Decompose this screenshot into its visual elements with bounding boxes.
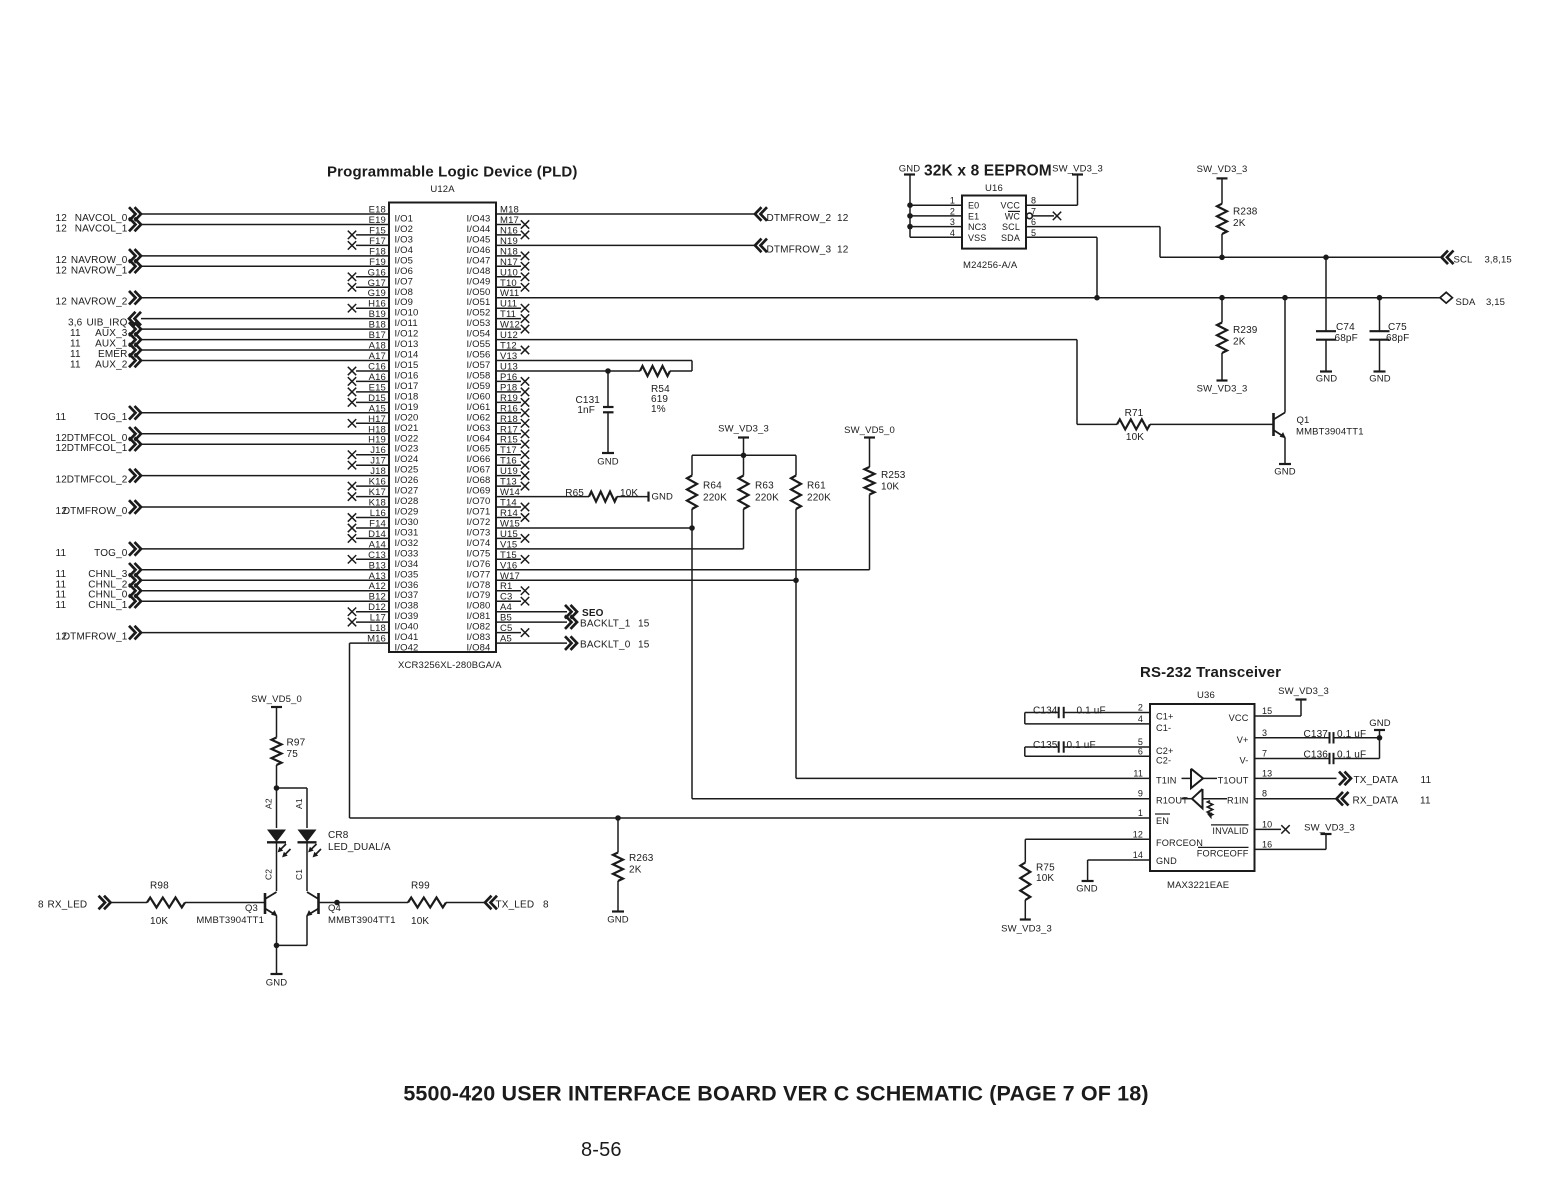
svg-text:A13: A13: [369, 571, 386, 582]
svg-text:GND: GND: [1274, 467, 1296, 478]
svg-text:NAVCOL_0: NAVCOL_0: [75, 213, 128, 224]
svg-text:6: 6: [1031, 217, 1036, 227]
pin I/O44 ball M17 (no connect): [467, 215, 530, 235]
svg-text:M18: M18: [500, 205, 519, 216]
pin I/O79 ball R1 (no connect): [467, 581, 530, 601]
svg-text:I/O31: I/O31: [395, 528, 419, 539]
svg-text:CR8: CR8: [328, 830, 349, 841]
svg-text:CHNL_3: CHNL_3: [88, 569, 128, 580]
svg-text:I/O67: I/O67: [467, 465, 491, 476]
svg-text:R97: R97: [287, 738, 306, 749]
svg-text:0.1 uF: 0.1 uF: [1067, 740, 1096, 751]
wire R71 to Q1 base: [1150, 423, 1274, 425]
pin I/O45 ball N16 (no connect): [467, 225, 530, 245]
svg-text:F15: F15: [369, 225, 386, 236]
svg-text:15: 15: [1262, 706, 1272, 716]
svg-text:12: 12: [56, 433, 68, 444]
pin 1 EN number: [1138, 808, 1143, 818]
svg-text:MMBT3904TT1: MMBT3904TT1: [196, 915, 264, 926]
capacitor C75 68pF: [1370, 295, 1410, 371]
ground GND below C75: [1369, 372, 1391, 385]
wire U16 pin 3: [907, 217, 962, 229]
pin I/O67 ball T16 (no connect): [467, 456, 530, 476]
ground GND above C137: [1369, 718, 1391, 738]
node DTMFROW_3 pin I/O46 ball N19: [467, 236, 849, 256]
svg-text:GND: GND: [1369, 374, 1391, 385]
pin I/O4 ball F17 (no connect): [348, 236, 413, 256]
svg-text:C13: C13: [368, 550, 386, 561]
svg-text:A14: A14: [369, 539, 386, 550]
svg-text:R1OUT: R1OUT: [1156, 796, 1188, 806]
svg-text:J17: J17: [370, 456, 386, 467]
svg-text:TX_DATA: TX_DATA: [1354, 775, 1399, 786]
svg-text:K17: K17: [369, 487, 386, 498]
svg-text:E0: E0: [968, 201, 979, 211]
svg-text:I/O13: I/O13: [395, 339, 419, 350]
svg-text:MAX3221EAE: MAX3221EAE: [1167, 880, 1229, 891]
svg-text:U11: U11: [500, 299, 517, 310]
sheet title: [403, 1082, 1148, 1106]
svg-text:T13: T13: [500, 477, 517, 488]
ground GND at U16 left: [899, 164, 921, 175]
svg-text:I/O82: I/O82: [467, 622, 491, 633]
svg-text:I/O21: I/O21: [395, 423, 419, 434]
pin I/O27 ball K16 (no connect): [348, 477, 419, 497]
svg-text:K18: K18: [369, 498, 386, 509]
pin I/O39 ball D12 (no connect): [348, 602, 419, 622]
svg-text:R75: R75: [1036, 863, 1055, 874]
svg-text:68pF: 68pF: [1386, 333, 1409, 344]
svg-text:8: 8: [543, 900, 549, 911]
svg-text:12: 12: [1133, 829, 1143, 839]
svg-text:10K: 10K: [881, 482, 899, 493]
svg-text:VSS: VSS: [968, 233, 986, 243]
svg-text:I/O70: I/O70: [467, 496, 491, 507]
node DTMFCOL_2 pin I/O26 ball J18: [56, 466, 419, 486]
svg-text:I/O23: I/O23: [395, 444, 419, 455]
svg-text:I/O1: I/O1: [395, 214, 414, 225]
svg-text:W12: W12: [500, 320, 520, 331]
svg-text:Programmable Logic Device (PLD: Programmable Logic Device (PLD): [327, 164, 578, 181]
svg-text:H18: H18: [368, 424, 386, 435]
svg-text:G19: G19: [368, 288, 386, 299]
svg-text:10K: 10K: [1126, 432, 1144, 443]
svg-text:V-: V-: [1240, 756, 1249, 766]
wire I/O57 ball V13 to net R54loop: [467, 351, 693, 371]
pin I/O7 ball G16 (no connect): [348, 267, 413, 287]
capacitor C134 0.1uF: [1025, 703, 1150, 724]
svg-text:I/O30: I/O30: [395, 517, 419, 528]
svg-text:K16: K16: [369, 477, 386, 488]
svg-text:I/O12: I/O12: [395, 329, 419, 340]
svg-text:P16: P16: [500, 372, 517, 383]
pin I/O60 ball P18 (no connect): [467, 382, 530, 402]
pin I/O72 ball R14 (no connect): [467, 508, 530, 528]
svg-text:B12: B12: [369, 592, 386, 603]
svg-text:CHNL_0: CHNL_0: [88, 590, 128, 601]
svg-text:I/O18: I/O18: [395, 391, 419, 402]
svg-text:R263: R263: [629, 853, 654, 864]
pin I/O56 ball T12 (no connect): [467, 341, 530, 361]
svg-text:5500-420 USER INTERFACE BOARD: 5500-420 USER INTERFACE BOARD VER C SCHE…: [403, 1082, 1148, 1106]
svg-text:11: 11: [1420, 796, 1431, 807]
pin I/O19 ball D15 (no connect): [348, 393, 419, 413]
svg-text:GND: GND: [1369, 718, 1391, 729]
capacitor C135 0.1uF: [1025, 737, 1150, 756]
svg-text:B18: B18: [369, 320, 386, 331]
svg-text:AUX_3: AUX_3: [95, 328, 128, 339]
capacitor C137 0.1uF: [1255, 728, 1383, 744]
svg-text:10K: 10K: [620, 488, 638, 499]
svg-text:C1: C1: [294, 869, 304, 880]
node BACKLT_1 pin I/O82 ball B5: [467, 613, 650, 633]
svg-text:P18: P18: [500, 382, 517, 393]
svg-text:MMBT3904TT1: MMBT3904TT1: [1296, 427, 1364, 438]
svg-text:7: 7: [1031, 206, 1036, 216]
pin I/O71 ball T14 (no connect): [467, 498, 530, 518]
svg-text:I/O35: I/O35: [395, 569, 419, 580]
power SW_VD3_3 above 220K resistors: [718, 424, 769, 459]
CR8 designator LED_DUAL/A: [328, 830, 391, 853]
svg-text:I/O22: I/O22: [395, 433, 419, 444]
svg-text:11: 11: [70, 339, 81, 350]
svg-text:I/O9: I/O9: [395, 297, 414, 308]
pin I/O69 ball T13 (no connect): [467, 477, 530, 497]
svg-text:DTMFROW_3: DTMFROW_3: [767, 244, 832, 255]
svg-text:AUX_2: AUX_2: [95, 360, 128, 371]
svg-text:3,6: 3,6: [68, 318, 83, 329]
svg-text:68pF: 68pF: [1335, 333, 1358, 344]
svg-text:TOG_1: TOG_1: [94, 412, 128, 423]
pin I/O66 ball T17 (no connect): [467, 445, 530, 465]
svg-text:V15: V15: [500, 539, 517, 550]
svg-text:R253: R253: [881, 470, 906, 481]
svg-text:I/O26: I/O26: [395, 475, 419, 486]
pin I/O10 ball H16 (no connect): [348, 299, 419, 319]
svg-text:R238: R238: [1233, 207, 1258, 218]
svg-text:L18: L18: [370, 623, 386, 634]
svg-text:SW_VD3_3: SW_VD3_3: [1001, 924, 1052, 935]
svg-text:15: 15: [638, 639, 650, 650]
svg-text:220K: 220K: [755, 493, 779, 504]
svg-text:2: 2: [1138, 703, 1143, 713]
wire I/O75 ball V15 to net R63: [467, 539, 744, 559]
ground GND below C74: [1316, 372, 1338, 385]
svg-text:E15: E15: [369, 382, 386, 393]
svg-text:I/O64: I/O64: [467, 433, 491, 444]
svg-text:DTMFROW_2: DTMFROW_2: [767, 213, 832, 224]
svg-text:I/O44: I/O44: [467, 224, 491, 235]
svg-text:GND: GND: [597, 457, 619, 468]
svg-text:C2-: C2-: [1156, 755, 1171, 765]
page number 8-56: [581, 1139, 622, 1161]
svg-text:A1: A1: [294, 798, 304, 809]
svg-text:I/O77: I/O77: [467, 569, 491, 580]
node RX_DATA: [1255, 789, 1431, 807]
svg-text:T12: T12: [500, 341, 517, 352]
svg-text:U36: U36: [1197, 690, 1215, 701]
svg-text:N16: N16: [500, 225, 518, 236]
svg-text:I/O84: I/O84: [467, 643, 491, 654]
svg-text:SDA: SDA: [1456, 297, 1476, 308]
svg-text:2: 2: [950, 206, 955, 216]
svg-text:A2: A2: [264, 798, 274, 809]
pin I/O16 ball C16 (no connect): [348, 362, 419, 382]
node NAVCOL_0 pin I/O1 ball E18: [56, 205, 414, 225]
wire U36 FORCEON to R75: [1025, 829, 1150, 862]
pin I/O31 ball F14 (no connect): [348, 519, 419, 539]
node BACKLT_0 pin I/O84 ball A5: [467, 634, 650, 654]
pin I/O76 ball T15 (no connect): [467, 550, 530, 570]
PLD section title: [327, 164, 578, 181]
node TX_LED: [319, 900, 409, 906]
svg-text:SW_VD3_3: SW_VD3_3: [1197, 164, 1248, 175]
svg-text:U19: U19: [500, 466, 518, 477]
U12A part number XCR3256XL-280BGA/A: [398, 660, 502, 671]
buffer T1 triangle inside U36: [1182, 769, 1218, 788]
node CHNL_2 pin I/O36 ball A13: [56, 571, 419, 591]
svg-text:V+: V+: [1237, 735, 1249, 745]
svg-text:12: 12: [56, 297, 68, 308]
wire I/O55 ball U12 to net R71: [467, 330, 1078, 350]
svg-text:R19: R19: [500, 393, 518, 404]
svg-text:U16: U16: [985, 183, 1003, 194]
svg-text:C1-: C1-: [1156, 723, 1171, 733]
wire I/O58 ball U13 to net R54: [467, 362, 693, 382]
svg-text:I/O54: I/O54: [467, 329, 491, 340]
resistor R71 10K: [1117, 408, 1150, 443]
svg-text:R99: R99: [411, 881, 430, 892]
EEPROM section title: [924, 163, 1052, 180]
LED CR8 left diode: [267, 830, 291, 892]
svg-text:12: 12: [56, 224, 68, 235]
svg-text:C134: C134: [1033, 706, 1058, 717]
svg-text:I/O59: I/O59: [467, 381, 491, 392]
svg-text:3: 3: [1262, 728, 1267, 738]
svg-text:T14: T14: [500, 498, 517, 509]
node UIB_IRQ pin I/O11 ball B19: [68, 309, 418, 329]
svg-text:11: 11: [56, 579, 67, 590]
pin C1 label: [294, 869, 304, 880]
wire I/O55 riser to R71: [1077, 340, 1117, 425]
wire R64 node to U36 R1OUT: [692, 528, 1150, 799]
svg-text:I/O45: I/O45: [467, 234, 491, 245]
resistor R64 220K: [687, 455, 727, 531]
svg-text:I/O81: I/O81: [467, 611, 491, 622]
ground GND at U36 pin 14: [1076, 881, 1098, 895]
svg-text:I/O79: I/O79: [467, 590, 491, 601]
pin U16 7 WC (no connect): [1027, 206, 1062, 220]
svg-text:I/O4: I/O4: [395, 245, 414, 256]
svg-text:12: 12: [56, 265, 68, 276]
svg-text:11: 11: [70, 328, 81, 339]
svg-text:I/O34: I/O34: [395, 559, 419, 570]
wire SW_VD3_3 bus: [692, 454, 796, 456]
svg-text:N17: N17: [500, 257, 518, 268]
power SW_VD3_3 below R239: [1197, 381, 1248, 395]
svg-text:AUX_1: AUX_1: [95, 339, 128, 350]
pin 11 T1IN number: [1133, 768, 1143, 778]
svg-text:7: 7: [1262, 749, 1267, 759]
ground GND below Q1: [1274, 464, 1296, 478]
svg-text:11: 11: [56, 590, 67, 601]
svg-text:A17: A17: [369, 351, 386, 362]
svg-text:DTMFCOL_2: DTMFCOL_2: [67, 475, 128, 486]
node CHNL_0 pin I/O37 ball A12: [56, 581, 419, 601]
svg-text:I/O57: I/O57: [467, 360, 491, 371]
svg-text:I/O17: I/O17: [395, 381, 419, 392]
pin I/O63 ball R18 (no connect): [467, 414, 530, 434]
svg-text:A18: A18: [369, 341, 386, 352]
resistor R99 10K: [408, 881, 549, 928]
svg-text:11: 11: [1421, 775, 1432, 786]
svg-text:I/O56: I/O56: [467, 350, 491, 361]
svg-text:12: 12: [56, 632, 68, 643]
svg-text:I/O33: I/O33: [395, 548, 419, 559]
svg-text:C1+: C1+: [1156, 712, 1174, 722]
svg-text:75: 75: [287, 749, 299, 760]
svg-text:10: 10: [1262, 819, 1272, 829]
svg-text:DTMFROW_0: DTMFROW_0: [63, 506, 128, 517]
pin I/O47 ball N18 (no connect): [467, 246, 530, 266]
pin C2 label: [264, 869, 274, 880]
svg-text:I/O8: I/O8: [395, 287, 414, 298]
svg-text:12: 12: [837, 244, 849, 255]
svg-text:I/O14: I/O14: [395, 350, 419, 361]
transistor Q4 MMBT3904TT1: [306, 892, 395, 945]
resistor R263 2K: [613, 815, 654, 911]
wire U16 pin 2: [907, 206, 962, 218]
pin I/O53 ball T11 (no connect): [467, 309, 530, 329]
wire Q3/Q4 emitter rail: [274, 943, 307, 974]
node EMER pin I/O14 ball A18: [70, 341, 419, 361]
svg-text:VCC: VCC: [1001, 201, 1021, 211]
node SEO pin I/O81 ball A4: [467, 602, 604, 622]
pin I/O52 ball U11 (no connect): [467, 299, 530, 319]
svg-text:RX_DATA: RX_DATA: [1353, 796, 1399, 807]
svg-text:D12: D12: [368, 602, 386, 613]
pin I/O24 ball J16 (no connect): [348, 445, 419, 465]
svg-text:F14: F14: [369, 519, 386, 530]
svg-text:T17: T17: [500, 445, 517, 456]
U16 part number M24256-A/A: [963, 260, 1018, 271]
svg-text:3,15: 3,15: [1486, 297, 1505, 308]
op-amp U12A body (PLD IC box): [389, 184, 496, 652]
pin I/O40 ball L17 (no connect): [348, 613, 419, 633]
svg-text:E18: E18: [369, 205, 386, 216]
svg-text:0.1 uF: 0.1 uF: [1077, 706, 1106, 717]
node TX_DATA: [1255, 768, 1432, 786]
svg-text:GND: GND: [1156, 856, 1177, 866]
svg-text:R98: R98: [150, 881, 169, 892]
transceiver U36 body: [1150, 690, 1255, 871]
svg-text:I/O19: I/O19: [395, 402, 419, 413]
svg-text:I/O48: I/O48: [467, 266, 491, 277]
pin I/O49 ball U10 (no connect): [467, 267, 530, 287]
svg-text:10K: 10K: [150, 916, 168, 927]
svg-text:I/O61: I/O61: [467, 402, 491, 413]
svg-text:I/O72: I/O72: [467, 517, 491, 528]
svg-text:W14: W14: [500, 487, 520, 498]
svg-text:H16: H16: [368, 299, 386, 310]
svg-text:SEO: SEO: [582, 608, 604, 619]
pin I/O17 ball A16 (no connect): [348, 372, 419, 392]
svg-text:WC: WC: [1005, 211, 1021, 221]
svg-text:I/O78: I/O78: [467, 580, 491, 591]
svg-text:U12A: U12A: [430, 184, 455, 195]
wire I/O73 ball W15 to net R64: [467, 519, 693, 539]
wire U16 GND vertical: [909, 175, 911, 238]
svg-text:I/O28: I/O28: [395, 496, 419, 507]
pin 9 R1OUT number: [1138, 789, 1143, 799]
svg-text:SW_VD5_0: SW_VD5_0: [251, 694, 302, 705]
svg-text:11: 11: [56, 548, 67, 559]
power SW_VD3_3 below R75: [1001, 920, 1052, 935]
svg-text:SW_VD3_3: SW_VD3_3: [1304, 823, 1355, 834]
svg-text:I/O47: I/O47: [467, 255, 491, 266]
svg-text:DTMFCOL_1: DTMFCOL_1: [67, 443, 128, 454]
svg-text:C16: C16: [368, 362, 386, 373]
wire I/O77 ball V16 to net R253: [467, 560, 870, 580]
svg-text:I/O27: I/O27: [395, 486, 419, 497]
svg-text:T15: T15: [500, 550, 517, 561]
power SW_VD5_0 above R97: [251, 694, 302, 738]
wire U16 pin 6 SCL to SCL bus: [1026, 217, 1160, 257]
svg-text:C5: C5: [500, 623, 512, 634]
svg-text:V16: V16: [500, 560, 517, 571]
svg-text:B5: B5: [500, 613, 512, 624]
node RX_LED: [38, 896, 147, 911]
svg-text:12: 12: [56, 506, 68, 517]
svg-text:N19: N19: [500, 236, 518, 247]
svg-text:R71: R71: [1125, 408, 1144, 419]
svg-text:5: 5: [1031, 228, 1036, 238]
svg-text:I/O36: I/O36: [395, 580, 419, 591]
svg-text:1: 1: [950, 196, 955, 206]
svg-text:I/O76: I/O76: [467, 559, 491, 570]
svg-text:F19: F19: [369, 257, 386, 268]
node DTMFCOL_1 pin I/O23 ball H19: [56, 435, 419, 455]
pin I/O62 ball R16 (no connect): [467, 403, 530, 423]
svg-text:I/O71: I/O71: [467, 507, 491, 518]
svg-text:I/O20: I/O20: [395, 412, 419, 423]
svg-text:T10: T10: [500, 278, 517, 289]
power SW_VD3_3 at U36 FORCEOFF: [1255, 823, 1355, 850]
svg-text:L17: L17: [370, 613, 386, 624]
node AUX_1 pin I/O13 ball B17: [70, 330, 419, 350]
node NAVROW_1 pin I/O6 ball F19: [56, 257, 414, 277]
svg-text:I/O32: I/O32: [395, 538, 419, 549]
svg-text:11: 11: [56, 600, 67, 611]
svg-text:2K: 2K: [1233, 337, 1246, 348]
svg-text:I/O83: I/O83: [467, 632, 491, 643]
svg-text:I/O41: I/O41: [395, 632, 419, 643]
svg-text:SDA: SDA: [1001, 233, 1020, 243]
svg-text:D15: D15: [368, 393, 386, 404]
resistor R54 619 1%: [640, 366, 670, 415]
resistor R238 2K: [1217, 178, 1258, 260]
svg-text:G17: G17: [368, 278, 386, 289]
svg-text:4: 4: [1138, 714, 1143, 724]
resistor R239 2K: [1217, 295, 1258, 381]
node NAVROW_0 pin I/O5 ball F18: [56, 246, 414, 266]
pin A1 label: [294, 798, 304, 809]
svg-text:1: 1: [1138, 808, 1143, 818]
svg-text:EMER: EMER: [98, 349, 128, 360]
svg-text:I/O62: I/O62: [467, 412, 491, 423]
svg-text:0.1 uF: 0.1 uF: [1337, 750, 1366, 761]
svg-text:I/O65: I/O65: [467, 444, 491, 455]
